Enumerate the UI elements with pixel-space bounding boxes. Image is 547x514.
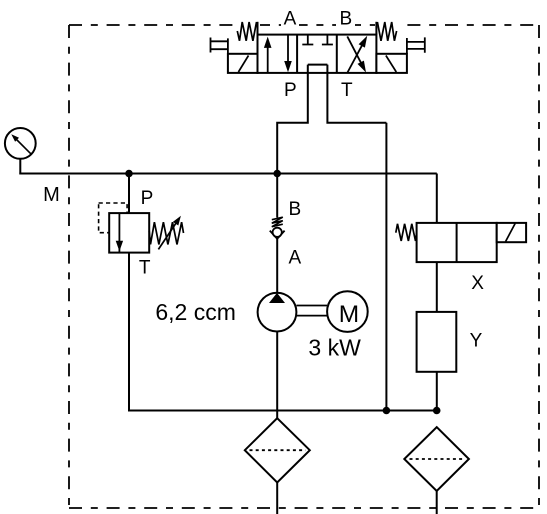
directional valve DV1: P/T stub: [277, 65, 386, 174]
valve X: spring: [396, 224, 417, 241]
shaft pump-motor: [296, 305, 327, 307]
DV1: left solenoid: [228, 54, 258, 73]
wire: relief valve T down and bottom return line: [129, 253, 437, 411]
svg-text:M: M: [339, 301, 359, 328]
wire: filter F1 to bottom edge: [276, 483, 278, 514]
check valve: ball: [273, 228, 282, 237]
directional valve DV1: body: [258, 35, 377, 73]
DV1: right solenoid: [376, 54, 407, 73]
svg-text:Y: Y: [470, 331, 483, 352]
svg-text:P: P: [141, 188, 154, 209]
DV1 position 3: crossed arrows: [347, 42, 364, 73]
check valve: spring: [272, 217, 283, 227]
valve X: body: [417, 223, 497, 262]
DV1 position 1: down arrow: [287, 35, 289, 63]
DV1: left electric connector: [211, 38, 228, 54]
wire: valve X to component Y: [436, 262, 438, 312]
wire: component Y to bottom node: [436, 372, 438, 411]
svg-text:P: P: [284, 80, 297, 101]
filter F2 (return): [404, 427, 469, 491]
filter F1 (suction): [245, 418, 310, 482]
relief valve V1: internal flow arrow: [118, 213, 120, 252]
wire: main pressure line: [19, 173, 436, 175]
valve X: solenoid: [497, 223, 526, 242]
svg-text:A: A: [284, 9, 297, 30]
svg-text:X: X: [471, 273, 484, 294]
svg-text:B: B: [339, 9, 352, 30]
DV1: left spring: [237, 22, 256, 41]
svg-text:M: M: [43, 184, 60, 206]
motor M1: [327, 291, 368, 332]
border mask under springs and labels: [234, 8, 399, 27]
DV1 position 2: blocked port marks: [302, 35, 333, 45]
svg-text:3 kW: 3 kW: [308, 335, 361, 361]
node: junction dot pressure line / relief branch: [125, 170, 133, 178]
wire: pump line from junction down to check valve: [276, 174, 278, 218]
pressure gauge: [5, 128, 36, 159]
svg-text:B: B: [289, 199, 302, 220]
DV1 position 1: up arrow: [267, 44, 269, 73]
wire: pressure line down to valve X: [436, 174, 438, 223]
relief valve V1: adjustment arrow: [158, 220, 178, 249]
wire: pump down to filter: [276, 332, 278, 419]
svg-text:A: A: [288, 248, 301, 269]
wire: filter F2 to bottom edge: [436, 491, 438, 514]
svg-text:T: T: [139, 257, 151, 278]
relief valve V1: spring: [149, 222, 183, 244]
relief valve V1: body: [109, 213, 149, 253]
relief valve V1: pilot dashed box: [99, 203, 128, 233]
check valve: seat: [270, 231, 285, 239]
DV1: right electric connector: [407, 37, 425, 53]
wire: tank return line from valve T side: [385, 123, 387, 411]
node: dot return line / bottom line: [383, 407, 391, 415]
DV1: right spring: [377, 22, 396, 41]
node: dot right branch / bottom line: [433, 407, 441, 415]
wire: gauge stem: [19, 159, 21, 175]
svg-text:T: T: [341, 80, 353, 101]
component Y (orifice block): [417, 312, 457, 372]
node: junction dot pressure line / pump line: [273, 170, 281, 178]
svg-text:6,2 ccm: 6,2 ccm: [155, 299, 236, 325]
wire: check valve to pump: [276, 239, 278, 293]
pump P1: [258, 293, 297, 332]
wire: branch down to relief valve P: [128, 174, 130, 214]
